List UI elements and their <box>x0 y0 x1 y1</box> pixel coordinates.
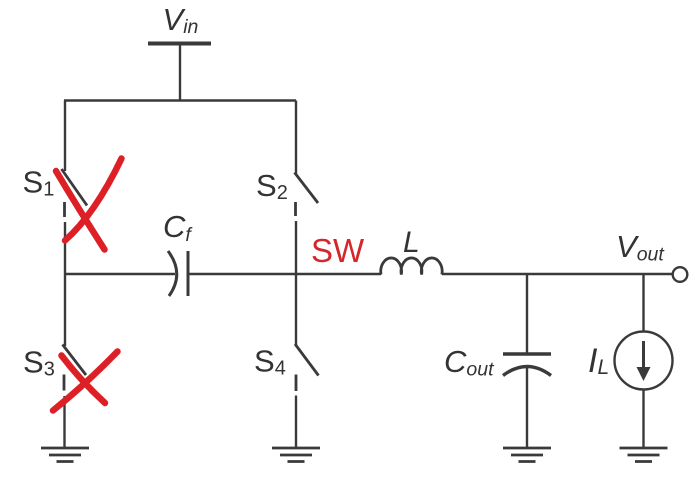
ground left <box>41 448 89 462</box>
svg-text:S2: S2 <box>256 168 288 204</box>
wire Vin stem down <box>179 45 181 102</box>
wire S1 top lead <box>64 101 66 172</box>
switch S4 bottom contact dash <box>295 375 298 392</box>
wire main left of Cf <box>65 273 175 275</box>
node Vout terminal circle <box>673 267 688 282</box>
svg-text:Vout: Vout <box>616 229 665 266</box>
svg-text:SW: SW <box>311 232 365 269</box>
wire S2 top lead <box>295 101 297 175</box>
wire IL top lead <box>642 274 644 332</box>
capacitor C_f curved plate <box>168 251 177 296</box>
current source I_L circle <box>615 332 673 390</box>
current source I_L arrow <box>642 341 645 369</box>
wire inductor to output <box>442 273 673 275</box>
svg-text:Cout: Cout <box>444 344 495 381</box>
svg-text:S3: S3 <box>23 345 55 381</box>
node Vin supply bar <box>148 42 211 46</box>
svg-text:S4: S4 <box>254 344 286 380</box>
switch S1 bottom contact dash <box>63 202 66 217</box>
wire main Cf to inductor <box>188 273 381 275</box>
switch S1 blade <box>62 169 88 206</box>
wire Cout bottom lead <box>526 368 528 447</box>
svg-text:S1: S1 <box>23 165 55 201</box>
svg-text:IL: IL <box>588 342 609 380</box>
red X over S1 <box>56 159 122 250</box>
wire S4 top lead <box>295 274 297 346</box>
wire S1 bottom lead <box>64 222 66 274</box>
ground under Cout <box>503 448 551 462</box>
wire S3 top lead <box>64 274 66 346</box>
switch S2 blade <box>295 173 319 204</box>
svg-text:Vin: Vin <box>163 2 199 38</box>
wire top horizontal <box>64 99 296 101</box>
capacitor C_f straight plate <box>187 251 190 296</box>
wire S4 bottom lead <box>295 396 297 448</box>
ground middle <box>272 448 320 462</box>
svg-text:Cf: Cf <box>163 209 193 246</box>
ground under IL <box>620 448 668 462</box>
wire S3 bottom lead <box>63 396 65 447</box>
red X over S3 <box>53 352 118 411</box>
switch S2 bottom contact dash <box>294 202 297 216</box>
wire S2 bottom lead <box>295 221 297 274</box>
switch S3 blade <box>63 345 87 376</box>
switch S3 bottom contact dash <box>63 375 66 391</box>
switch S4 blade <box>295 344 319 376</box>
inductor L <box>381 258 442 275</box>
capacitor C_out top plate <box>503 352 551 356</box>
svg-text:L: L <box>403 226 420 259</box>
wire IL bottom lead <box>642 390 644 448</box>
wire Cout top lead <box>526 274 528 353</box>
capacitor C_out curved plate <box>503 367 551 376</box>
